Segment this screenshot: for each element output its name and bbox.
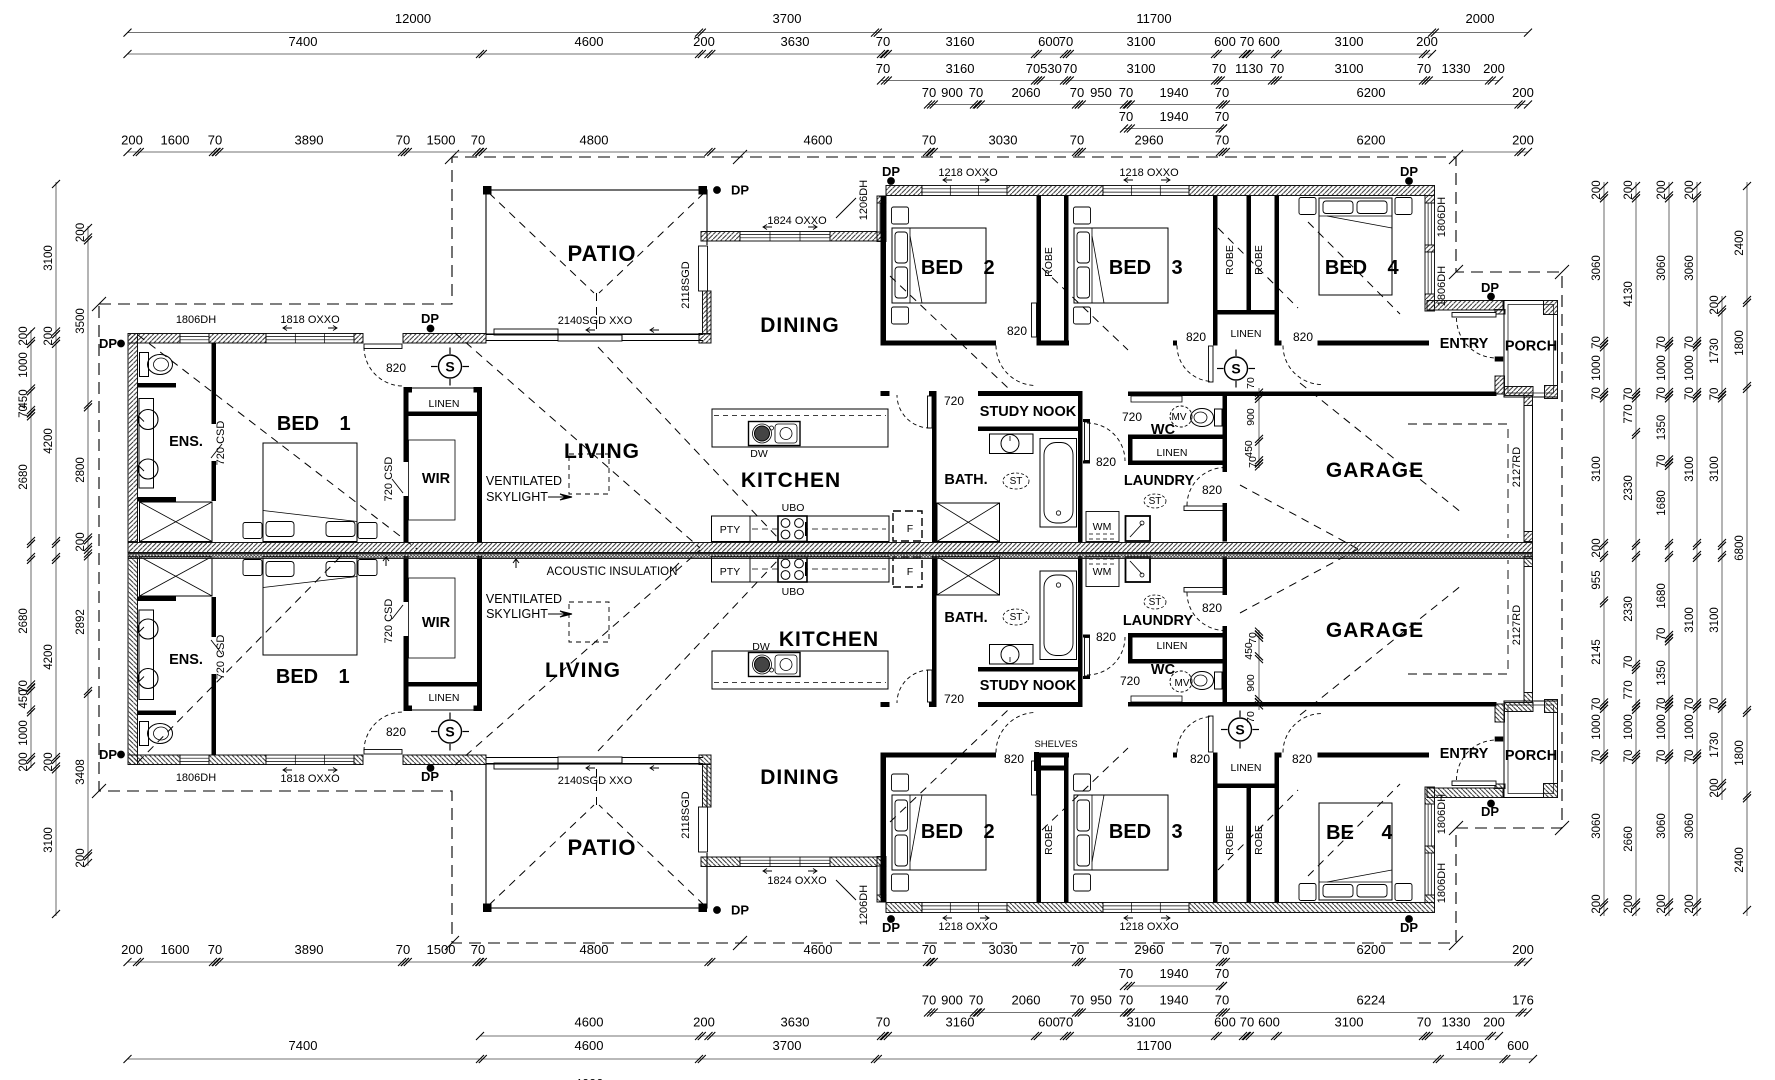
dimension column: right col 1: [1591, 180, 1608, 916]
svg-text:3700: 3700: [773, 1038, 802, 1053]
dimension column: left col B: [43, 180, 60, 918]
svg-text:1330: 1330: [1442, 61, 1471, 76]
skylight dashed box (B): [569, 602, 609, 642]
garage eave dashed: [1408, 424, 1508, 538]
svg-text:ENTRY: ENTRY: [1440, 746, 1489, 762]
svg-text:2960: 2960: [1135, 133, 1164, 148]
DP entry (A): [1481, 280, 1499, 300]
svg-text:BED: BED: [921, 257, 963, 279]
svg-text:DP: DP: [731, 903, 749, 918]
svg-text:70: 70: [1119, 993, 1133, 1008]
svg-text:3890: 3890: [295, 942, 324, 957]
svg-text:70: 70: [922, 993, 936, 1008]
svg-text:1800: 1800: [1734, 330, 1746, 356]
door 2140SGD arrows: [586, 328, 595, 333]
ens vanity: [139, 399, 154, 489]
svg-text:70: 70: [1656, 628, 1668, 641]
svg-text:70: 70: [208, 942, 222, 957]
roof hip left wing (unit A): [138, 335, 417, 549]
svg-text:70: 70: [396, 942, 410, 957]
wall: garage east upper block [unit B mirror]: [1524, 693, 1533, 703]
svg-text:70: 70: [1119, 109, 1133, 124]
party wall lower band: [128, 554, 1533, 559]
wall: beds south caps: [1173, 341, 1177, 346]
svg-text:4600: 4600: [575, 1076, 604, 1080]
wall: wir west upper: [404, 387, 409, 462]
svg-text:3100: 3100: [1335, 34, 1364, 49]
svg-text:2330: 2330: [1623, 475, 1635, 501]
bath tub: [1040, 439, 1077, 528]
wall: patio east below door: [703, 291, 712, 334]
svg-text:3060: 3060: [1684, 255, 1696, 281]
dimension column: right col 4: [1684, 180, 1701, 916]
svg-text:1000: 1000: [1623, 714, 1635, 740]
dimension row: top fifth (1940): [1119, 109, 1229, 133]
window 1824 OXXO [unit B mirror]: [740, 857, 830, 867]
DP north wall (A): [421, 311, 439, 332]
roof hip patio E [unit B mirror]: [599, 805, 704, 905]
fridge space F [unit B mirror]: [893, 557, 922, 587]
svg-text:70: 70: [1070, 942, 1084, 957]
wall: garage north [unit B mirror]: [1227, 702, 1497, 707]
wall: entry north [unit B mirror]: [1427, 788, 1503, 798]
porch post SE [unit B mirror]: [1545, 700, 1558, 713]
roof hip garage 2: [1240, 485, 1360, 550]
svg-text:3100: 3100: [1709, 456, 1721, 482]
svg-text:1824 OXXO: 1824 OXXO: [767, 215, 827, 227]
eave corner mark dining [unit B mirror]: [836, 880, 856, 900]
wir inner shelf: [409, 440, 456, 520]
svg-text:600: 600: [1214, 1015, 1236, 1030]
svg-text:3100: 3100: [1335, 1015, 1364, 1030]
svg-text:3100: 3100: [1127, 34, 1156, 49]
svg-text:1940: 1940: [1160, 966, 1189, 981]
svg-text:600: 600: [1507, 1038, 1529, 1053]
svg-text:ENS.: ENS.: [169, 434, 203, 450]
svg-text:1130: 1130: [1235, 61, 1263, 76]
ens vanity [unit B mirror]: [138, 610, 158, 700]
svg-text:70: 70: [969, 85, 983, 100]
svg-text:1000: 1000: [18, 352, 30, 378]
svg-text:3160: 3160: [946, 61, 975, 76]
window 1806DH (bed4 lower): [1425, 252, 1435, 294]
svg-text:1330: 1330: [1442, 1015, 1471, 1030]
svg-text:DP: DP: [1481, 280, 1499, 295]
svg-text:70: 70: [1240, 1015, 1254, 1030]
svg-text:MV: MV: [1172, 412, 1187, 423]
svg-text:200: 200: [18, 752, 30, 771]
svg-text:70: 70: [1119, 966, 1133, 981]
svg-text:70: 70: [922, 85, 936, 100]
wall: study nook bottom: [978, 427, 1079, 432]
window arrows 1218 bed3 [unit B mirror]: [1124, 916, 1170, 921]
entry door gap jamb: [1495, 357, 1504, 362]
bed4 bed symbol: [1319, 198, 1392, 295]
svg-text:2140SGD XXO: 2140SGD XXO: [558, 315, 633, 327]
svg-text:WM: WM: [1093, 521, 1112, 533]
window 1818 OXXO: [266, 334, 354, 344]
svg-text:450: 450: [18, 689, 30, 708]
eave corner mark: [92, 784, 106, 798]
svg-text:70: 70: [396, 133, 410, 148]
svg-text:BATH.: BATH.: [944, 472, 987, 488]
wall: bath east [unit B mirror]: [1078, 556, 1083, 707]
svg-text:200: 200: [1483, 1015, 1505, 1030]
laundry WM: [1086, 512, 1119, 542]
svg-text:F: F: [907, 523, 913, 535]
svg-text:200: 200: [1512, 85, 1534, 100]
ens CSD door mark [unit B mirror]: [211, 640, 222, 654]
wall: bath west [unit B mirror]: [932, 556, 937, 707]
svg-text:70: 70: [1215, 942, 1229, 957]
wall: nook west return: [929, 391, 934, 396]
wall: linen2 bottom: [1128, 461, 1227, 466]
svg-text:ENS.: ENS.: [169, 652, 203, 668]
svg-text:4600: 4600: [575, 1038, 604, 1053]
hall dim line [unit B mirror]: [1255, 628, 1263, 710]
svg-text:3060: 3060: [1684, 813, 1696, 839]
roof hip bed wing 4: [1308, 222, 1400, 314]
svg-text:LAUNDRY: LAUNDRY: [1123, 613, 1194, 629]
roof hip garage 2 [unit B mirror]: [1240, 548, 1360, 613]
svg-text:720: 720: [1120, 674, 1140, 688]
door 2118SGD panel [unit B mirror]: [699, 807, 708, 852]
svg-text:ACOUSTIC INSULATION: ACOUSTIC INSULATION: [547, 566, 678, 578]
svg-text:820: 820: [1007, 324, 1027, 338]
porch south wall strip: [1504, 387, 1533, 396]
svg-text:70: 70: [471, 133, 485, 148]
svg-text:3: 3: [1171, 821, 1182, 843]
wall: laundry east lower [unit B mirror]: [1223, 557, 1228, 596]
svg-text:DP: DP: [1481, 804, 1499, 819]
eave corner mark: [733, 936, 747, 950]
bath shower [unit B mirror]: [937, 557, 1000, 596]
wall: bed wing north seg1 [unit B mirror]: [886, 903, 922, 913]
svg-text:S: S: [1231, 361, 1240, 377]
svg-text:1730: 1730: [1709, 338, 1721, 364]
svg-text:2145: 2145: [1591, 639, 1603, 665]
svg-text:820: 820: [1004, 752, 1024, 766]
roof hip bed wing 3 [unit B mirror]: [1218, 790, 1298, 870]
svg-text:200: 200: [693, 34, 715, 49]
wall: north wall left wing seg4: [403, 334, 486, 344]
svg-text:530: 530: [1040, 61, 1062, 76]
svg-text:VENTILATED: VENTILATED: [486, 592, 562, 606]
svg-text:2060: 2060: [1012, 993, 1041, 1008]
svg-text:SKYLIGHT: SKYLIGHT: [486, 607, 548, 621]
porch post NE: [1544, 301, 1558, 315]
door 2140SGD XXO: sill [unit B mirror]: [486, 757, 703, 769]
svg-text:ST: ST: [1010, 612, 1023, 623]
ens toilet: [140, 353, 149, 377]
svg-text:DP: DP: [421, 311, 439, 326]
svg-text:MV: MV: [1175, 678, 1190, 689]
wall: linen top caps [unit B mirror]: [404, 706, 483, 712]
wall: bath east: [1078, 391, 1083, 542]
wall: robe/bed3: [1064, 196, 1069, 346]
svg-text:PTY: PTY: [720, 524, 740, 536]
door arc laundry: [1087, 423, 1125, 461]
svg-text:70: 70: [1215, 993, 1229, 1008]
svg-text:4800: 4800: [580, 942, 609, 957]
wall: nook west return [unit B mirror]: [929, 702, 934, 707]
bed1 bed [unit B mirror]: [263, 557, 357, 656]
roof hip bed wing 1: [890, 276, 1008, 388]
svg-text:BED: BED: [921, 821, 963, 843]
svg-text:1806DH: 1806DH: [1436, 863, 1448, 903]
svg-text:720 CSD: 720 CSD: [215, 635, 227, 680]
svg-text:DP: DP: [1400, 164, 1418, 179]
smoke alarm S living (A): [431, 348, 469, 386]
wall: bed wing north seg1: [886, 186, 922, 196]
wall: patio sill east end [unit B mirror]: [699, 755, 711, 765]
wall: north wall left wing seg1 [unit B mirror]: [128, 755, 180, 765]
DP bed wing W (B): [882, 916, 900, 935]
door arc bed2 [unit B mirror]: [996, 713, 1036, 753]
svg-text:1680: 1680: [1656, 490, 1668, 516]
svg-text:2680: 2680: [18, 608, 30, 634]
skylight dashed box (A): [569, 454, 609, 494]
wall: linen2 bottom [unit B mirror]: [1128, 633, 1227, 638]
svg-text:70: 70: [1070, 85, 1084, 100]
wall: robe2 divider: [1247, 196, 1252, 314]
svg-text:70: 70: [1245, 377, 1257, 389]
door 820 bed1: leaf: [364, 344, 402, 349]
wall: linen2 top [unit B mirror]: [1128, 659, 1227, 664]
svg-text:LINEN: LINEN: [1231, 328, 1262, 340]
svg-text:70: 70: [18, 405, 30, 418]
svg-text:SKYLIGHT: SKYLIGHT: [486, 490, 548, 504]
wc toilet [unit B mirror]: [1191, 672, 1223, 690]
door leaf laundry-garage [unit B mirror]: [1184, 588, 1223, 593]
svg-text:LINEN: LINEN: [429, 692, 460, 704]
dimension row: bottom fourth: [476, 1015, 1505, 1041]
svg-text:BED: BED: [1109, 821, 1151, 843]
svg-text:2680: 2680: [18, 464, 30, 490]
kitchen bench: [712, 516, 890, 542]
dimension row: top third: [876, 61, 1505, 85]
eave corner mark: [733, 150, 747, 164]
svg-text:S: S: [445, 724, 454, 740]
svg-text:200: 200: [43, 326, 55, 345]
entry door swing arc: [1457, 318, 1497, 358]
wall: dining east / bed2 west [unit B mirror]: [881, 757, 887, 858]
svg-text:WC: WC: [1151, 422, 1176, 438]
dimension column: left col A: [75, 223, 92, 868]
svg-text:200: 200: [1623, 894, 1635, 913]
svg-text:4600: 4600: [575, 1015, 604, 1030]
svg-text:200: 200: [75, 848, 87, 867]
roof hip patio W: [489, 193, 594, 293]
svg-text:955: 955: [1591, 570, 1603, 589]
garage eave dashed [unit B mirror]: [1408, 560, 1508, 674]
roof hip bed wing 2 [unit B mirror]: [1042, 748, 1128, 830]
eave corner mark: [92, 297, 106, 311]
svg-text:70: 70: [1656, 455, 1668, 468]
dimension column: left col C: [18, 326, 35, 771]
svg-text:820: 820: [1186, 330, 1206, 344]
bed2 bed symbol: [892, 228, 986, 303]
wall: robe2/bed4 [unit B mirror]: [1275, 753, 1280, 903]
svg-text:3100: 3100: [1127, 61, 1156, 76]
door leaf bed2 [unit B mirror]: [1032, 761, 1037, 795]
svg-text:DP: DP: [882, 920, 900, 935]
window arrows 1824 OXXO [unit B mirror]: [763, 869, 817, 874]
porch slab outline: [1504, 301, 1558, 398]
DP patio (B): [714, 903, 750, 918]
wall: wc top [unit B mirror]: [1128, 696, 1227, 707]
svg-text:1824 OXXO: 1824 OXXO: [767, 875, 827, 887]
svg-text:DINING: DINING: [760, 314, 840, 337]
svg-text:200: 200: [1684, 180, 1696, 199]
svg-text:2127RD: 2127RD: [1511, 447, 1523, 487]
wall: west exterior (unit A): [128, 334, 138, 542]
door 2140SGD arrows [unit B mirror]: [586, 766, 659, 771]
bath vanity: [990, 434, 1034, 454]
svg-text:200: 200: [1591, 894, 1603, 913]
wall: dining north seg1 [unit B mirror]: [701, 857, 740, 867]
roof hip patio E: [599, 193, 704, 293]
bed3 bed symbol: [1074, 228, 1168, 303]
svg-text:1: 1: [339, 413, 350, 435]
svg-text:70: 70: [1684, 698, 1696, 711]
svg-text:ROBE: ROBE: [1253, 825, 1265, 855]
wall: north wall left wing seg3: [354, 334, 363, 344]
svg-text:1940: 1940: [1160, 85, 1189, 100]
door arc bed4: [1283, 346, 1322, 385]
svg-text:7400: 7400: [289, 34, 318, 49]
svg-text:3: 3: [1171, 257, 1182, 279]
svg-text:3100: 3100: [1591, 456, 1603, 482]
svg-text:720: 720: [944, 692, 964, 706]
svg-text:DP: DP: [99, 336, 117, 351]
wall: north wall left wing seg3 [unit B mirror]: [354, 755, 363, 765]
door leaf bed3: [1209, 346, 1214, 382]
svg-text:F: F: [907, 566, 913, 578]
wall: linen2 top: [1128, 435, 1227, 440]
svg-text:3890: 3890: [295, 133, 324, 148]
roof hip living 1 [unit B mirror]: [455, 550, 700, 765]
svg-text:3630: 3630: [781, 1015, 810, 1030]
kitchen island: [712, 409, 888, 447]
door 2127RD jambs: [1523, 406, 1525, 532]
svg-text:900: 900: [1245, 674, 1257, 692]
svg-text:200: 200: [1656, 180, 1668, 199]
wall: linen bottom (bed1) [unit B mirror]: [404, 682, 483, 687]
bed1 robe box: [140, 502, 213, 542]
svg-text:200: 200: [121, 942, 143, 957]
svg-text:3160: 3160: [946, 34, 975, 49]
svg-text:BED: BED: [1325, 257, 1367, 279]
window arrows 1218 bed2 [unit B mirror]: [943, 916, 989, 921]
roof ridge patio: [596, 293, 598, 333]
DP bed wing E (A): [1400, 164, 1418, 184]
svg-text:3100: 3100: [1684, 456, 1696, 482]
smoke alarm S hall (A): [1217, 350, 1255, 388]
svg-text:820: 820: [386, 725, 406, 739]
svg-text:ROBE: ROBE: [1224, 245, 1236, 275]
svg-text:600: 600: [1258, 1015, 1280, 1030]
svg-text:1806DH: 1806DH: [176, 772, 216, 784]
dimension row: top sixth (room dims): [121, 133, 1534, 157]
roof eave outline: [99, 157, 1562, 943]
entry door leaf [unit B mirror]: [1452, 781, 1496, 786]
svg-text:70: 70: [1591, 698, 1603, 711]
eave corner mark: [1555, 265, 1569, 279]
entry wall step: [1495, 310, 1505, 315]
dimension column: right col 2: [1623, 180, 1640, 916]
wall: ens stub bottom: [138, 497, 177, 502]
eave corner mark: [1449, 821, 1463, 835]
svg-text:600: 600: [1258, 34, 1280, 49]
roof hip bed wing 3: [1218, 228, 1298, 308]
bed4 bed symbol [unit B mirror]: [1299, 803, 1412, 901]
wall: robe/bed3 [unit B mirror]: [1064, 753, 1069, 903]
DP west (A): [99, 336, 124, 351]
svg-text:6800: 6800: [1734, 535, 1746, 561]
dimension row: top fourth: [922, 85, 1534, 109]
svg-text:1206DH: 1206DH: [858, 180, 870, 220]
svg-text:70: 70: [876, 61, 890, 76]
svg-text:4200: 4200: [43, 644, 55, 670]
svg-text:BED: BED: [1109, 257, 1151, 279]
svg-text:820: 820: [1293, 330, 1313, 344]
svg-text:LIVING: LIVING: [545, 659, 621, 682]
door leaf nook/bath hall [unit B mirror]: [928, 670, 933, 702]
wall: bed4 east seg3: [1425, 294, 1435, 311]
svg-text:VENTILATED: VENTILATED: [486, 474, 562, 488]
svg-text:LINEN: LINEN: [1157, 640, 1188, 652]
svg-text:70: 70: [1684, 387, 1696, 400]
svg-text:70: 70: [1070, 133, 1084, 148]
wall: wc top: [1128, 392, 1227, 397]
svg-text:820: 820: [1096, 455, 1116, 469]
svg-text:3030: 3030: [989, 942, 1018, 957]
svg-text:70: 70: [1591, 336, 1603, 349]
svg-text:70: 70: [1656, 336, 1668, 349]
svg-text:200: 200: [75, 532, 87, 551]
svg-text:1600: 1600: [161, 133, 190, 148]
svg-text:1730: 1730: [1709, 732, 1721, 758]
door leaf nook/bath hall: [928, 396, 933, 428]
svg-text:1600: 1600: [161, 942, 190, 957]
wall: north wall left wing seg2 [unit B mirror]: [209, 755, 266, 765]
window 1218 OXXO (bed3): [1103, 186, 1189, 196]
svg-text:PORCH: PORCH: [1505, 339, 1557, 355]
svg-text:4130: 4130: [1623, 281, 1635, 307]
svg-text:70: 70: [1623, 388, 1635, 401]
wall: beds south seg1 (bed2): [881, 341, 997, 346]
svg-text:11700: 11700: [1136, 1038, 1171, 1053]
svg-text:1000: 1000: [1591, 355, 1603, 381]
bed1 robe box [unit B mirror]: [140, 557, 213, 597]
svg-text:70: 70: [1215, 85, 1229, 100]
cooktop UBO [unit B mirror]: [778, 557, 807, 583]
wall: laundry east lower: [1223, 503, 1228, 542]
DP entry (B): [1481, 800, 1499, 819]
svg-text:820: 820: [1292, 752, 1312, 766]
svg-text:3100: 3100: [43, 245, 55, 271]
svg-text:70: 70: [922, 942, 936, 957]
svg-text:2400: 2400: [1734, 847, 1746, 873]
svg-text:70: 70: [876, 34, 890, 49]
svg-text:3100: 3100: [1335, 61, 1364, 76]
wall: bed2/robe [unit B mirror]: [1037, 753, 1042, 903]
door arc bed3 [unit B mirror]: [1177, 717, 1213, 753]
wall: bed3/robe2 [unit B mirror]: [1213, 753, 1218, 903]
cooktop UBO: [778, 516, 807, 542]
shelves symbol (B): [1034, 752, 1039, 771]
